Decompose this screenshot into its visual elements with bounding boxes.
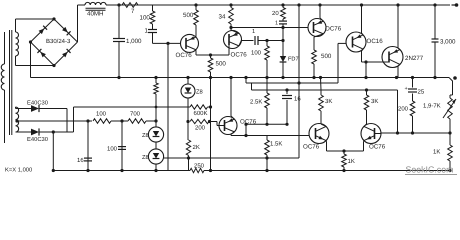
svg-text:SeekIC.com: SeekIC.com — [406, 165, 454, 175]
wire center-tap filter line — [17, 120, 92, 122]
resistor R7 100 — [265, 39, 268, 42]
wire OC16 collector to 2N277 base — [362, 49, 364, 51]
potentiometer R20 1.9-7K — [450, 94, 453, 96]
resistor R11 200 — [186, 120, 189, 123]
svg-text:OC76: OC76 — [325, 26, 342, 33]
wire collector node to output bus — [365, 62, 367, 78]
transistor Q4 OC76 — [308, 19, 326, 37]
wire L2 to OC16 base — [337, 43, 339, 83]
resistor R6 20 with series capacitor 1 — [281, 8, 286, 20]
svg-text:100: 100 — [140, 15, 151, 22]
svg-text:OC76: OC76 — [303, 144, 320, 151]
wire bridge left corner down to mid rail — [30, 42, 32, 78]
wire rectified output join — [66, 109, 68, 133]
svg-text:16: 16 — [294, 96, 301, 103]
resistor R4 500 (Q1 collector load) — [210, 55, 212, 58]
capacitor C8 25uF feedback — [412, 78, 414, 88]
resistor R19 200 — [410, 101, 415, 116]
svg-text:7: 7 — [131, 8, 135, 15]
zener D4 Z8 — [148, 149, 163, 164]
capacitor C6 16uF (to driver base network) — [286, 90, 288, 94]
svg-text:Z8: Z8 — [196, 89, 203, 96]
transistor Q7 OC16 — [346, 32, 366, 52]
svg-text:2K: 2K — [193, 144, 200, 151]
svg-text:25: 25 — [418, 89, 425, 96]
svg-text:1: 1 — [252, 29, 255, 35]
svg-text:Z8: Z8 — [142, 132, 149, 139]
svg-text:1: 1 — [145, 28, 149, 35]
svg-text:3,000: 3,000 — [440, 39, 456, 46]
zener chain column wire with small resistor — [154, 119, 157, 122]
capacitor C4 16uF — [87, 121, 89, 171]
rectifier diode D6 E40C30 — [16, 131, 32, 133]
wire Q5 emitter to tail — [325, 141, 327, 142]
svg-text:100: 100 — [107, 146, 118, 153]
resistor R14 2.5K — [266, 78, 268, 94]
svg-text:34: 34 — [219, 14, 226, 21]
rectifier diode D5 E40C30 — [16, 107, 19, 132]
resistor R15 1.5K — [266, 136, 268, 141]
capacitor C5 100uF — [120, 119, 123, 122]
resistor R9 100 — [93, 119, 111, 124]
svg-text:FD7: FD7 — [288, 57, 299, 63]
svg-text:1,000: 1,000 — [126, 38, 142, 45]
svg-text:B30/24-3: B30/24-3 — [46, 38, 71, 45]
transistor Q3 OC76 — [219, 117, 237, 135]
wire top rail long vertical — [297, 3, 300, 6]
resistor R3 500 (Q1 emitter) — [195, 35, 197, 37]
zener D3 Z8 — [148, 127, 163, 142]
svg-text:OC76: OC76 — [369, 144, 386, 151]
svg-text:E40C30: E40C30 — [27, 100, 48, 107]
wire L3 down to Q6 base line — [397, 90, 399, 133]
bridge rectifier B30/24-3 — [31, 19, 55, 42]
resistor R12 2K — [187, 122, 189, 141]
wire Q3 base from bias network — [216, 122, 218, 125]
svg-text:3K: 3K — [371, 98, 378, 105]
wire 2N277 base — [387, 61, 389, 63]
wire Q6 base to feedback node — [375, 133, 382, 135]
resistor R22 600K — [190, 105, 208, 109]
svg-text:OC76: OC76 — [176, 52, 193, 59]
svg-text:2N277: 2N277 — [405, 55, 424, 62]
wire Q2 collector coupling — [241, 40, 253, 42]
capacitor C7 3000uF output — [434, 5, 436, 39]
resistor R13 250 (in bottom rail) — [190, 168, 204, 172]
resistor R1 7 ohm — [122, 3, 138, 8]
wire Q3 emitter to mid rail — [231, 116, 234, 119]
svg-text:20: 20 — [272, 10, 279, 17]
transformer T1 core — [9, 30, 11, 135]
capacitor C1 1000uF filter — [118, 5, 120, 39]
wire bridge right corner up to choke — [77, 5, 79, 42]
svg-text:Z8: Z8 — [142, 154, 149, 161]
wire Q3 collector to Q5 base — [231, 132, 234, 134]
resistor R17 1K (tail) — [343, 151, 345, 154]
wire Q1 collector to Q2 base — [195, 50, 197, 52]
resistor R5 34 (Q2 emitter to rail) — [231, 30, 239, 33]
svg-text:600K: 600K — [194, 110, 208, 117]
svg-text:40MH: 40MH — [87, 11, 104, 18]
resistor R8 500 (Q4 collector load) — [314, 34, 323, 37]
svg-text:500: 500 — [183, 12, 194, 19]
transformer T1 primary winding — [4, 32, 6, 64]
top supply rail — [106, 4, 450, 6]
wire Q1 base node down to bottom rail — [167, 43, 169, 170]
line L3 to driver bases — [251, 83, 253, 90]
wire 2N277 emitter to top rail — [398, 48, 400, 50]
resistor R16 3K (Q5 collector load) — [321, 124, 326, 126]
svg-text:1K: 1K — [348, 158, 355, 165]
svg-text:1K: 1K — [433, 149, 440, 156]
transistor Q1 OC76 — [181, 34, 199, 52]
transistor Q2 OC76 — [224, 31, 242, 49]
transformer T1 secondary winding (upper) — [15, 19, 17, 32]
svg-text:200: 200 — [195, 125, 206, 132]
wire divider tap — [245, 124, 247, 135]
svg-text:700: 700 — [130, 111, 141, 118]
zener D2 Z8 — [181, 84, 195, 98]
svg-text:2.5K: 2.5K — [250, 99, 262, 106]
capacitor C2 1uF coupling — [152, 24, 154, 30]
mid rail output terminal — [453, 76, 457, 80]
svg-text:K=X 1,000: K=X 1,000 — [5, 166, 32, 173]
capacitor C3 1uF — [254, 36, 256, 45]
wire rectified output bus y107 — [67, 131, 74, 133]
svg-text:500: 500 — [321, 53, 332, 60]
resistor R2 100 — [152, 5, 154, 11]
svg-text:16: 16 — [77, 157, 84, 164]
wire output elbow to feedback column — [449, 78, 453, 96]
transistor Q5 OC76 (driver) — [309, 124, 329, 144]
svg-text:E40C30: E40C30 — [27, 136, 48, 143]
resistor R10 700 — [111, 120, 128, 122]
wire OC16 emitter to top rail — [362, 33, 364, 35]
svg-text:1.5K: 1.5K — [270, 141, 282, 148]
svg-text:OC16: OC16 — [367, 38, 384, 45]
wire 2K node to bottom rail — [188, 158, 190, 171]
wire Q6 emitter to tail — [363, 141, 365, 142]
diode FD7 — [282, 28, 284, 57]
svg-text:1: 1 — [275, 21, 278, 27]
resistor R21 1K — [449, 133, 451, 145]
transistor Q8 2N277 — [382, 47, 403, 68]
svg-text:100: 100 — [96, 111, 107, 118]
wire Q2 emitter bus to Q4 base — [231, 27, 308, 29]
bottom rail — [53, 170, 190, 172]
resistor R18 3K (Q6 collector load) — [364, 124, 367, 126]
svg-text:3K: 3K — [325, 98, 332, 105]
svg-text:1,9-7K: 1,9-7K — [423, 103, 441, 110]
svg-text:250: 250 — [194, 163, 205, 170]
line L2 bootstrap — [245, 78, 247, 84]
svg-text:OC76: OC76 — [231, 52, 248, 59]
wire 500 column down — [210, 78, 212, 171]
svg-text:+: + — [405, 86, 408, 92]
wire secondary-bottom to bridge bottom corner — [16, 65, 55, 67]
wire 2N277 collector to output bus — [398, 64, 400, 66]
wire C2 to Q1 base — [153, 42, 181, 44]
wire secondary-top to bridge top corner — [16, 18, 55, 20]
mid rail (common bus) — [31, 77, 450, 79]
wire Q4 emitter to top rail — [320, 18, 323, 21]
top rail output terminal — [452, 4, 457, 6]
transistor Q6 OC76 (driver) — [361, 124, 381, 144]
svg-text:100: 100 — [251, 50, 262, 57]
bus line y158 zener reference — [164, 157, 299, 159]
choke L1 40MH — [85, 2, 106, 5]
svg-text:500: 500 — [216, 61, 227, 68]
svg-text:200: 200 — [398, 106, 409, 113]
